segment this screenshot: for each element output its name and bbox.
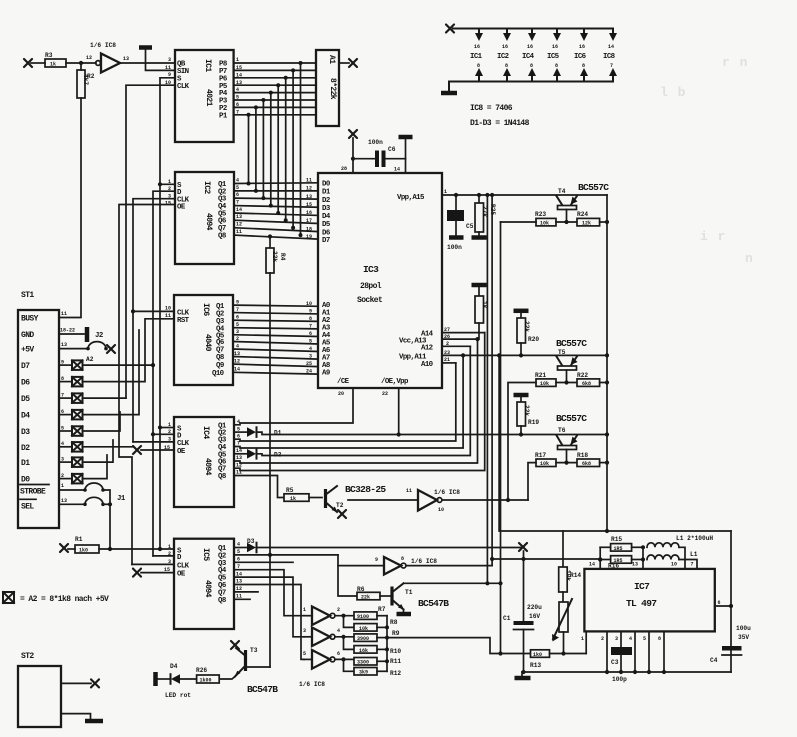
wire: IC5 D to D-bus (153, 555, 174, 557)
svg-text:D0: D0 (21, 476, 30, 485)
svg-text:/CE: /CE (337, 378, 350, 386)
svg-text:1/6 IC8: 1/6 IC8 (411, 558, 437, 565)
svg-text:IC4: IC4 (522, 53, 535, 61)
svg-text:1: 1 (168, 544, 171, 550)
svg-text:4094: 4094 (203, 458, 212, 476)
svg-text:BC557C: BC557C (578, 182, 609, 193)
ground (IC1 SIN) (139, 48, 175, 71)
svg-text:D3: D3 (21, 428, 30, 437)
wire: IC5 Q4 to inverter 1 (234, 570, 304, 616)
resistor R4 22k (266, 234, 286, 273)
svg-text:3900: 3900 (357, 636, 369, 642)
svg-text:OE: OE (177, 448, 186, 456)
wire: D0 row stub (83, 455, 108, 479)
transistor T6 BC557C (556, 413, 587, 463)
svg-text:5: 5 (303, 651, 306, 657)
trimmer potentiometer (552, 599, 572, 656)
svg-text:1: 1 (303, 607, 306, 613)
svg-text:7: 7 (610, 63, 613, 69)
svg-text:4: 4 (629, 636, 632, 642)
off-board cross (C1 top) (519, 543, 527, 551)
svg-text:9: 9 (375, 557, 378, 563)
ground symbol (rail) (441, 91, 457, 96)
svg-text:8: 8 (477, 63, 480, 69)
svg-text:1: 1 (61, 483, 64, 489)
resistor R23 10k (501, 211, 578, 227)
svg-text:R10: R10 (390, 648, 401, 655)
svg-text:i r: i r (700, 229, 726, 244)
svg-text:8*22k: 8*22k (328, 78, 337, 100)
svg-text:STROBE: STROBE (20, 488, 46, 497)
svg-text:R14: R14 (570, 572, 581, 579)
svg-text:R7: R7 (378, 606, 386, 613)
inverter 1/6 IC8 (pins 9,8) (375, 556, 492, 575)
svg-text:12k: 12k (582, 221, 591, 227)
svg-text:R9: R9 (392, 630, 400, 637)
svg-text:11: 11 (61, 311, 67, 317)
svg-text:BC557C: BC557C (556, 413, 587, 424)
svg-text:D7: D7 (21, 362, 30, 371)
IC6 4040 (165, 295, 240, 385)
svg-text:A9: A9 (322, 370, 330, 378)
transistor T1 BC547B (392, 583, 501, 614)
wire: Q2/D1 row to /OE,Vpp and T6 (257, 432, 608, 434)
data bus verticals P to IC2 Q (249, 63, 301, 235)
svg-text:13: 13 (632, 562, 638, 568)
svg-text:16: 16 (306, 210, 312, 216)
svg-text:11: 11 (236, 229, 242, 235)
resistor R2 (77, 70, 95, 98)
capacitor C1 220u 16V (503, 604, 542, 672)
wire: IC5 Q6 to inverter 5 (234, 585, 304, 660)
wire: D6 row up to IC6 RST (83, 319, 175, 382)
svg-text:P1: P1 (219, 112, 228, 120)
svg-text:n: n (745, 251, 754, 266)
wire: IC2 S to S-bus (160, 183, 175, 185)
svg-text:IC7: IC7 (634, 581, 650, 592)
svg-text:T5: T5 (558, 349, 566, 356)
wire: right rail down / C4 branch (730, 531, 732, 672)
capacitor C3 100p (611, 647, 632, 683)
wire: Vpp,A15 pin 1 row (442, 194, 607, 196)
wire: R2 top to node (80, 63, 82, 70)
svg-text:19: 19 (306, 234, 312, 240)
svg-text:Q8: Q8 (218, 473, 227, 481)
svg-text:D4: D4 (21, 412, 30, 421)
svg-text:= A2 = 8*1k8 nach +5V: = A2 = 8*1k8 nach +5V (20, 595, 109, 604)
wire: /OE,Vpp pin 22 stem (398, 388, 400, 435)
wire: IC6 CLK to CLK-bus (133, 310, 174, 312)
off-board cross (A1 common) (349, 59, 357, 67)
resistor R14 (559, 567, 582, 602)
svg-text:10k: 10k (540, 221, 549, 227)
wire: Vpp A11 rail to IC7 top (499, 355, 731, 531)
svg-text:IC6: IC6 (201, 303, 210, 316)
wire: IC5 Q2 row to I5/R6 (234, 553, 384, 596)
svg-text:10k: 10k (540, 461, 549, 467)
svg-text:Q8: Q8 (218, 597, 227, 605)
svg-text:R26: R26 (196, 667, 207, 674)
svg-text:8: 8 (401, 556, 404, 562)
resistor R22 6k8 (577, 372, 607, 387)
svg-text:D1: D1 (274, 430, 282, 437)
wire: IC4 Q8 to R5 (234, 476, 284, 498)
svg-text:T3: T3 (250, 647, 258, 654)
Vpp long vertical to R15/R16 and I5 (490, 193, 494, 566)
svg-text:Q8: Q8 (218, 233, 227, 241)
svg-text:J2: J2 (95, 332, 103, 340)
svg-text:C6: C6 (388, 146, 396, 153)
svg-text:1k00: 1k00 (200, 678, 212, 684)
svg-text:1R5: 1R5 (614, 546, 623, 552)
svg-text:Q9: Q9 (216, 362, 224, 370)
svg-text:16: 16 (502, 44, 508, 50)
svg-text:BC547B: BC547B (418, 598, 449, 609)
off-board cross (R3 input) (24, 59, 32, 67)
svg-text:+5V: +5V (21, 346, 34, 355)
wire: IC1 S to S-bus (160, 78, 175, 549)
note: A2 pull-up (3, 592, 109, 604)
svg-text:RST: RST (177, 317, 190, 325)
svg-text:GND: GND (21, 331, 34, 340)
svg-text:14: 14 (394, 167, 400, 173)
svg-text:IC5: IC5 (201, 548, 210, 561)
data bus rows P8..P1 from IC1 to A1 (234, 63, 316, 115)
wire: Q3 row to A10 nest (234, 363, 456, 441)
svg-text:IC8 = 7406: IC8 = 7406 (470, 104, 513, 113)
svg-text:1k0: 1k0 (79, 548, 88, 554)
svg-text:35V: 35V (738, 634, 749, 641)
wire: pin 6 to right rail (715, 605, 731, 607)
ground return arrows up (475, 68, 617, 82)
svg-text:R12: R12 (390, 670, 401, 677)
svg-text:12: 12 (306, 186, 312, 192)
IC3 28pol Socket (306, 173, 450, 397)
svg-text:OE: OE (177, 571, 186, 579)
svg-text:2: 2 (337, 607, 340, 613)
svg-text:C3: C3 (611, 659, 619, 666)
IC7 bottom pin stems (521, 631, 666, 674)
svg-text:16V: 16V (529, 613, 540, 620)
wire: R15/R16 left node to pin 14 (598, 547, 602, 569)
wire: IC5 Q5 to inverter 3 (234, 577, 304, 637)
ground symbol (bottom rail) (515, 672, 531, 678)
transistor T4 BC557C (557, 182, 610, 222)
svg-text:R15: R15 (611, 536, 622, 543)
svg-text:CLK: CLK (177, 440, 190, 448)
wire: D5 row up to IC1 CLK bus (83, 397, 127, 399)
svg-text:CLK: CLK (177, 83, 190, 91)
svg-text:IC2: IC2 (497, 53, 509, 61)
resistor R20 22k (Vpp,A11 pull) (514, 311, 540, 358)
svg-text:6: 6 (337, 651, 340, 657)
svg-text:14: 14 (589, 562, 595, 568)
svg-text:ST2: ST2 (21, 652, 34, 661)
svg-text:28pol: 28pol (360, 282, 382, 291)
wire: IC5 Q3 stub (234, 561, 293, 563)
wire: D4 row up stub (83, 330, 140, 415)
svg-text:22k: 22k (271, 251, 278, 262)
svg-text:6k8: 6k8 (582, 381, 591, 387)
svg-text:D4: D4 (322, 213, 331, 221)
resistor R19 22k (514, 395, 540, 437)
svg-text:1/6 IC8: 1/6 IC8 (299, 681, 325, 688)
svg-text:Q10: Q10 (212, 370, 225, 378)
supply arrows down to IC pins 16/14 (475, 29, 617, 42)
wire: IC4 S to S-bus (160, 427, 174, 429)
svg-text:r n: r n (722, 55, 748, 70)
svg-text:8: 8 (530, 63, 533, 69)
svg-text:IC3: IC3 (363, 264, 379, 275)
svg-text:4094: 4094 (203, 580, 212, 598)
svg-text:11: 11 (165, 65, 171, 71)
jumper J2 on GND (59, 327, 103, 342)
svg-text:4: 4 (236, 178, 239, 184)
svg-text:16k: 16k (359, 648, 368, 654)
wire: R4 vertical bus down to T3 (269, 273, 271, 667)
IC7 TL497 (581, 562, 721, 643)
svg-text:R8: R8 (390, 619, 398, 626)
svg-text:BC328-25: BC328-25 (345, 484, 386, 495)
connector ST2 (18, 652, 103, 727)
capacitor C4 100u (710, 625, 751, 664)
wire: ladder tap to R13 node (387, 638, 531, 654)
resistor R24 12k (577, 211, 609, 227)
jumper J1 STROBE/SEL (59, 483, 126, 549)
svg-text:R1: R1 (75, 536, 83, 543)
svg-text:5: 5 (643, 636, 646, 642)
svg-text:6: 6 (236, 192, 239, 198)
resistor R6 22k (357, 586, 390, 601)
svg-text:R13: R13 (530, 662, 541, 669)
svg-text:/OE,Vpp: /OE,Vpp (381, 378, 409, 386)
svg-text:7: 7 (236, 200, 239, 206)
junction dots on P rows (247, 61, 303, 117)
svg-text:4094: 4094 (204, 213, 213, 231)
svg-text:A10: A10 (421, 361, 434, 369)
svg-text:12: 12 (236, 222, 242, 228)
svg-text:3: 3 (168, 57, 171, 63)
diode D2 (234, 449, 282, 459)
IC2 4094 (165, 172, 242, 264)
svg-text:T1: T1 (405, 589, 413, 596)
svg-text:10k: 10k (540, 381, 549, 387)
svg-text:C1: C1 (503, 615, 511, 622)
svg-text:1: 1 (444, 189, 447, 195)
IC7 region outer rails (497, 353, 731, 672)
transistor T3 BC547B (219, 647, 278, 695)
vertical T1 collector / R23 / R13 link (498, 222, 502, 656)
rows IC2 Q1..Q8 to IC3 D0..D7 (234, 183, 318, 239)
svg-text:D7: D7 (322, 237, 330, 245)
wire: Q1 row to /CE (234, 388, 353, 425)
svg-text:13: 13 (61, 342, 67, 348)
off-board cross to IC5 OE (133, 569, 174, 577)
diode D1 (234, 427, 282, 437)
rows IC6 Q1..Q10 to IC3 A0..A9 (233, 305, 318, 374)
svg-text:10: 10 (671, 562, 677, 568)
svg-text:R2: R2 (87, 73, 95, 80)
svg-text:D2: D2 (322, 197, 330, 205)
LED D4 (158, 663, 191, 699)
connector ST1 (18, 291, 75, 528)
wire: IC5 Q1/D3 row to C1 cross (257, 547, 523, 549)
wire: Vcc to pin 28 (352, 138, 354, 173)
svg-text:14: 14 (236, 207, 242, 213)
wire: IC2 D to D-bus (153, 191, 175, 556)
wire: IC2 CLK to CLK-bus (133, 199, 175, 442)
svg-text:R23: R23 (535, 211, 546, 218)
svg-text:BC547B: BC547B (247, 684, 278, 695)
capacitor C5 100n (447, 193, 474, 251)
svg-text:D1-D3 = 1N4148: D1-D3 = 1N4148 (470, 119, 530, 128)
svg-text:IC1: IC1 (203, 59, 212, 72)
inverter 1/6 IC8 (pins 11,10) (348, 488, 528, 513)
svg-text:1k0: 1k0 (533, 652, 542, 658)
svg-text:L1: L1 (690, 551, 698, 558)
svg-text:J1: J1 (117, 495, 126, 503)
resistor R13 1k0 (530, 650, 586, 669)
off-board cross (+5V) (107, 345, 115, 353)
svg-text:BUSY: BUSY (21, 315, 39, 324)
svg-text:1/6 IC8: 1/6 IC8 (434, 489, 460, 496)
svg-text:A2: A2 (86, 356, 94, 363)
ground rail bottom (449, 82, 613, 92)
inverter 1/6 IC8 (pins 12,13) (86, 42, 175, 73)
off-board cross (T3 collector) (231, 641, 239, 649)
wire: R15/R16 right node to pin 13 (641, 545, 645, 569)
svg-text:1: 1 (236, 57, 239, 63)
wire: Q4 row nest (234, 355, 463, 448)
resistor R5 1k (284, 487, 322, 502)
wire: D3 row up stub (83, 412, 121, 431)
node: R3/R2 junction (79, 61, 83, 65)
svg-text:10: 10 (438, 507, 444, 513)
svg-text:28: 28 (341, 166, 347, 172)
transistor T5 BC557C (556, 338, 587, 383)
resistor network A1 8*22k (316, 50, 349, 126)
svg-text:13: 13 (236, 214, 242, 220)
resistor R21 10k (506, 372, 577, 502)
svg-text:6k8: 6k8 (582, 461, 591, 467)
svg-text:220u: 220u (527, 604, 542, 611)
svg-text:22k: 22k (523, 405, 530, 416)
wire: D2 row up to IC4 CLK (83, 446, 134, 448)
inverter 1/6 IC8 (pins 1,2) (303, 607, 354, 628)
power rail +5V top (446, 25, 613, 33)
svg-text:11: 11 (165, 313, 171, 319)
svg-text:11: 11 (406, 488, 412, 494)
inductor L1 2*100uH (647, 535, 713, 569)
IC4 4094 (164, 417, 242, 507)
svg-text:22k: 22k (361, 595, 370, 601)
svg-text:TL 497: TL 497 (626, 598, 657, 609)
svg-text:SEL: SEL (21, 502, 34, 511)
svg-text:R19: R19 (528, 419, 539, 426)
resistor R18 6k8 (577, 452, 607, 467)
inverter 1/6 IC8 (pins 3,4) (303, 628, 354, 650)
svg-text:22: 22 (382, 391, 388, 397)
svg-text:l b: l b (660, 85, 686, 100)
svg-text:OE: OE (177, 204, 186, 212)
svg-text:R18: R18 (577, 452, 588, 459)
svg-text:3: 3 (615, 636, 618, 642)
svg-text:D3: D3 (322, 205, 331, 213)
svg-text:18: 18 (306, 226, 312, 232)
wire: D1 row stub (83, 440, 114, 462)
rows IC3 right pins (442, 333, 607, 363)
resistor R25 27k (472, 193, 497, 238)
svg-text:D6: D6 (21, 379, 30, 388)
svg-text:R16: R16 (608, 563, 619, 570)
svg-text:14: 14 (608, 44, 614, 50)
svg-text:L1 2*100uH: L1 2*100uH (676, 535, 713, 542)
svg-text:C5: C5 (466, 223, 474, 230)
svg-text:15: 15 (165, 201, 171, 207)
svg-text:D2: D2 (21, 444, 30, 453)
wire: C1 vertical (523, 551, 525, 621)
wire: IC5 Q7 stub (234, 591, 258, 593)
svg-text:4021: 4021 (204, 89, 213, 107)
svg-text:13: 13 (123, 56, 129, 62)
svg-text:R20: R20 (528, 336, 539, 343)
pull-up network boxes A2 on D7..D0 (59, 356, 94, 483)
svg-text:12: 12 (86, 55, 92, 61)
svg-text:T4: T4 (558, 188, 566, 195)
svg-text:IC1: IC1 (470, 53, 483, 61)
svg-text:6: 6 (718, 600, 721, 606)
svg-text:Socket: Socket (357, 296, 383, 305)
resistor R1 1k0 (60, 536, 174, 554)
svg-text:20: 20 (338, 391, 344, 397)
svg-text:2: 2 (601, 636, 604, 642)
svg-text:1: 1 (581, 636, 584, 642)
svg-text:8: 8 (555, 63, 558, 69)
svg-text:A1: A1 (327, 55, 336, 64)
svg-text:D5: D5 (322, 221, 331, 229)
svg-text:R11: R11 (390, 658, 401, 665)
svg-text:IC5: IC5 (547, 53, 560, 61)
svg-text:1k: 1k (481, 301, 488, 309)
svg-text:D0: D0 (322, 181, 331, 189)
pin labels 8/7 (477, 63, 613, 69)
svg-text:16: 16 (527, 44, 533, 50)
svg-text:15: 15 (306, 202, 312, 208)
svg-text:3300: 3300 (357, 660, 369, 666)
svg-text:13: 13 (61, 498, 67, 504)
svg-text:T2: T2 (336, 502, 344, 509)
svg-text:BC557C: BC557C (556, 338, 587, 349)
svg-text:IC4: IC4 (201, 426, 210, 439)
svg-text:R24: R24 (577, 211, 588, 218)
svg-text:R21: R21 (535, 372, 546, 379)
svg-text:D5: D5 (21, 395, 30, 404)
wire: Q7 row to A14 nest (234, 333, 485, 471)
ground (LED) (153, 672, 158, 686)
resistor ladder R7..R12 (354, 606, 401, 677)
svg-text:8: 8 (658, 636, 661, 642)
svg-text:C4: C4 (710, 657, 718, 664)
wire: Q6 row to A13 nest (234, 339, 478, 463)
svg-text:CLK: CLK (177, 562, 190, 570)
capacitor C6 100n (353, 139, 406, 167)
svg-text:18-22: 18-22 (60, 328, 75, 334)
svg-text:3k9: 3k9 (359, 670, 368, 676)
svg-text:A12: A12 (421, 345, 433, 353)
svg-text:100u: 100u (736, 625, 751, 632)
svg-text:5: 5 (236, 185, 239, 191)
wire: IC5 CLK from OE-bus (132, 563, 174, 565)
